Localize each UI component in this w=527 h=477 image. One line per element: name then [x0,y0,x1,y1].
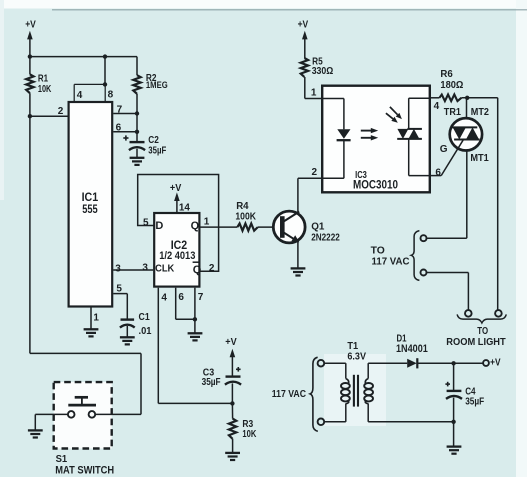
pin 6 label IC3 [435,168,441,179]
svg-text:TR1: TR1 [444,107,462,118]
svg-text:6: 6 [178,292,184,303]
svg-text:Q: Q [193,264,202,276]
wire secondary lower lead [368,404,453,422]
polarity plus C3 [236,367,241,372]
svg-text:117 VAC: 117 VAC [372,257,410,268]
svg-text:10K: 10K [242,429,256,440]
wire S1 right contact [95,413,141,415]
wire R5 to IC3 pin1 [305,77,322,99]
resistor R1 [26,74,33,93]
wire C4 to node2 [453,398,455,422]
label Q output [191,220,200,232]
svg-text:C1: C1 [139,312,151,323]
terminal upper 117VAC [421,235,427,241]
svg-text:14: 14 [179,203,190,214]
wire Q pin1 to R4 [199,226,237,228]
svg-text:5: 5 [116,283,122,294]
power +V supply IC2 [170,183,182,201]
wire MT1 to terminal [427,237,467,239]
label C3 value [202,367,221,388]
label C2 value [148,135,166,156]
pin 3 label IC1 [115,263,121,274]
wire pin8 drop vertical [104,57,106,85]
svg-text:TO: TO [477,326,488,337]
label R2 value [146,73,168,91]
node B junction dot pin8 drop [103,54,107,58]
ground below Q1 [291,268,306,275]
capacitor C1 [120,320,135,328]
svg-text:3: 3 [115,263,121,274]
wire secondary upper lead [368,363,407,378]
terminal room light left [465,310,472,317]
wire pin2 stub [30,115,68,117]
ground below C4 [447,447,462,454]
label D input [155,220,163,232]
node C junction dot bracket 4-8 [103,82,107,86]
wire primary upper lead [324,363,346,378]
polarity plus C2 [123,135,128,140]
wire node2 to ground [453,422,455,447]
wire pin6 stub [113,131,137,133]
pin 3 label IC2 [142,263,148,274]
wire R3 to ground [232,439,234,453]
svg-text:G: G [440,144,448,155]
pin 1 label IC1 [93,313,99,324]
label IC3 [355,169,367,181]
wire pin5 to C1 [113,294,127,320]
wire pin6 stub down [176,288,195,320]
svg-text:1: 1 [93,313,99,324]
wire Q1 collector vertical [297,178,299,213]
transformer T1 core [354,375,358,407]
transformer T1 secondary coil [364,379,373,404]
svg-text:1MEG: 1MEG [146,80,168,91]
label R5 value [312,56,334,77]
svg-text:+V: +V [225,337,237,348]
ground left of S1 [28,430,43,437]
power +V supply C3 [225,337,237,357]
svg-text:2: 2 [312,167,318,178]
capacitor C4 [446,391,462,399]
label C1 value [139,312,152,337]
wire node to R3 [231,403,233,418]
resistor R5 [301,58,308,77]
svg-text:3: 3 [142,263,148,274]
ground below R3 [225,453,240,460]
svg-text:Q: Q [191,220,200,232]
wire +V to C3 [231,356,233,377]
svg-text:2: 2 [58,106,64,117]
svg-text:35µF: 35µF [465,397,484,408]
switch S1 dashed box [54,382,112,448]
pin 7 label IC2 [198,292,204,303]
svg-text:8: 8 [108,90,114,101]
wire TR1 gate diagonal [441,139,464,176]
optocoupler IC3 MOC3010 box [322,86,430,193]
label MOC3010 [353,178,398,192]
svg-text:D: D [155,220,163,232]
pin 4 label IC3 [434,101,440,112]
wire IC3 pin4 internal [409,98,431,129]
transformer T1 primary coil [341,379,350,404]
svg-text:2N2222: 2N2222 [311,231,340,243]
wire pin7 stub [113,113,137,115]
label R1 value [38,74,52,95]
wire D1 to +V terminal [417,362,483,364]
resistor R4 [237,224,257,231]
label C4 value [465,386,484,407]
svg-text:1N4001: 1N4001 [396,343,428,355]
pin 6 label IC2 [178,292,184,303]
wire right rail down to lamp [497,98,499,310]
wire S1 left contact [35,414,68,430]
label MT2 [471,107,490,118]
wire lower terminal to lamp [427,273,469,311]
svg-text:.01: .01 [139,326,152,337]
resistor R3 [229,419,236,439]
label TO room light [477,326,488,337]
svg-text:100K: 100K [235,211,256,222]
node J junction dot C4 [451,361,455,365]
wire C3 to node [231,383,233,403]
wire pin4 to R6 [431,97,440,99]
svg-text:+V: +V [298,20,309,31]
label D1 value [396,333,428,355]
wire Q1 collector to pin2 [298,177,322,179]
svg-text:2: 2 [209,263,215,274]
label ROOM LIGHT [446,337,505,348]
wire S1 route right vertical [140,353,142,414]
node F junction dot pin6 [135,130,139,134]
label Q1 value [311,220,340,243]
svg-text:+V: +V [490,357,501,368]
wire C1 to ground [126,326,128,337]
pin 1 label IC3 [311,87,317,98]
svg-text:MT1: MT1 [470,153,489,164]
resistor R2 [133,57,140,142]
wire C2 to ground [136,149,138,158]
resistor R6 [439,95,461,102]
diode D1 1N4001 [407,358,417,368]
label CLK [155,263,175,275]
power +V supply R5 [298,20,309,40]
photo trigger arrows [386,107,402,123]
capacitor C3 [225,377,241,385]
svg-text:4: 4 [77,90,83,101]
svg-text:1/2 4013: 1/2 4013 [159,250,195,262]
wire bracket pin4-pin8 [74,84,105,101]
svg-text:ROOM LIGHT: ROOM LIGHT [446,337,505,348]
wire S1 route horizontal [30,352,141,354]
wire MT2 stub [466,98,468,121]
node D junction dot pin2 [28,114,32,118]
wire pin3 to CLK [113,269,153,271]
wire LED cathode internal [343,140,345,178]
svg-text:MOC3010: MOC3010 [353,178,398,192]
wire Q1 emitter vertical [297,241,299,269]
svg-text:CLK: CLK [155,263,175,275]
node I junction dot MT2 [465,96,469,100]
wire IC3 pin6 internal [409,139,431,176]
label 555 [82,204,98,216]
label R3 value [242,419,256,440]
power +V supply top-left [25,20,36,40]
wire +V to pin14 [176,200,178,214]
terminal T1 primary upper [318,360,325,367]
ground below C2 [130,158,145,165]
label TO 117 VAC [371,246,410,268]
label MAT SWITCH [55,464,114,476]
label G gate [440,144,448,155]
op-amp IC1 555 box [69,102,113,307]
light emission arrows [361,128,378,141]
svg-text:117 VAC: 117 VAC [272,389,306,400]
brace TO ROOM LIGHT [457,314,506,323]
pin 8 label IC1 [108,90,114,101]
flip-flop IC2 4013 box [154,213,199,287]
terminal room light right [495,310,502,317]
terminal +V output [483,360,489,366]
terminal lower 117VAC [421,270,427,276]
switch S1 pushbutton [68,397,96,417]
wire node to C4 [453,363,455,391]
diode LED inside IC3 [337,129,351,140]
svg-text:S1: S1 [56,453,68,465]
wire IC3 pin1 internal [322,99,344,130]
label Qbar output [193,262,202,276]
svg-text:4: 4 [434,101,440,112]
pin 6 label IC1 [116,123,122,134]
wire primary lower lead [324,404,346,422]
pin 5 label IC1 [116,283,122,294]
pin 1 label IC2 [204,217,210,228]
capacitor C2 [129,142,145,150]
label 117 VAC primary [272,389,306,400]
pin 14 label IC2 [179,203,190,214]
svg-text:555: 555 [82,204,98,216]
svg-text:1: 1 [311,87,317,98]
wire R1 to pin2 node [29,93,31,116]
label S1 [56,453,68,465]
node A junction dot top rail left [28,54,32,58]
label T1 value [347,341,366,362]
svg-text:+V: +V [170,183,182,194]
triac TR1 [450,118,482,150]
svg-text:10K: 10K [38,84,52,95]
pin 7 label IC1 [117,105,123,116]
ground below IC1 pin1 [84,329,99,336]
wire pin7 stub down [194,288,196,320]
wire pin1 stub IC1 [90,307,92,329]
triac inside IC3 [397,129,422,139]
svg-text:35µF: 35µF [202,377,221,388]
node K junction dot secondary return [451,420,455,424]
wire R4 to Q1 base [258,226,280,228]
pin 2 label IC2 [209,263,215,274]
svg-text:IC1: IC1 [82,190,99,204]
svg-text:330Ω: 330Ω [312,66,334,77]
svg-text:6: 6 [435,168,441,179]
pin 5 label IC2 [143,217,149,228]
wire MT1 vertical [466,147,468,238]
label IC1 [82,190,99,204]
node G junction dot pins6-7 [193,317,197,321]
svg-text:+V: +V [25,20,36,31]
svg-text:5: 5 [143,217,149,228]
label +V output [490,357,501,368]
polarity plus C4 [445,382,450,387]
svg-text:MT2: MT2 [471,107,490,118]
transistor Q1 2N2222 [273,211,305,243]
node H junction dot C3-R3 [230,401,234,405]
label R4 value [235,201,256,222]
pin 2 label IC1 [58,106,64,117]
pin 4 label IC1 [77,90,83,101]
svg-text:180Ω: 180Ω [440,80,463,91]
ground below C1 [120,337,135,344]
label MT1 [470,153,489,164]
pin 2 label IC3 [312,167,318,178]
wire IC3 pin6 to gate [431,175,441,177]
wire pin4 reset route [158,288,232,404]
label TR1 [444,107,462,118]
wire pins67 to ground [194,319,196,333]
pin 4 label IC2 [161,293,167,304]
wire +V stem to R1 [29,38,31,74]
wire D to Qbar feedback route [138,175,219,272]
wire S1 long vertical left [29,116,31,353]
svg-text:TO: TO [371,246,385,257]
brace TO 117 VAC [411,231,419,281]
svg-text:35µF: 35µF [148,145,166,156]
brace 117 VAC primary [310,357,318,431]
ground below IC2 [188,333,203,340]
svg-text:6.3V: 6.3V [347,351,366,362]
wire +V to R5 [304,38,306,58]
wire IC3 pin2 internal [322,177,344,179]
svg-text:1: 1 [204,217,210,228]
svg-text:MAT SWITCH: MAT SWITCH [55,464,114,476]
svg-text:4: 4 [161,293,167,304]
terminal T1 primary lower [318,419,325,426]
svg-text:R4: R4 [236,201,249,212]
label 1/2 4013 [159,250,195,262]
wire top rail y56 [30,56,137,58]
wire R6 to node [461,97,497,99]
label IC2 [171,240,188,252]
label R6 value [440,69,463,91]
node E junction dot pin7 [135,111,139,115]
svg-text:7: 7 [198,292,204,303]
svg-text:R6: R6 [440,69,453,80]
